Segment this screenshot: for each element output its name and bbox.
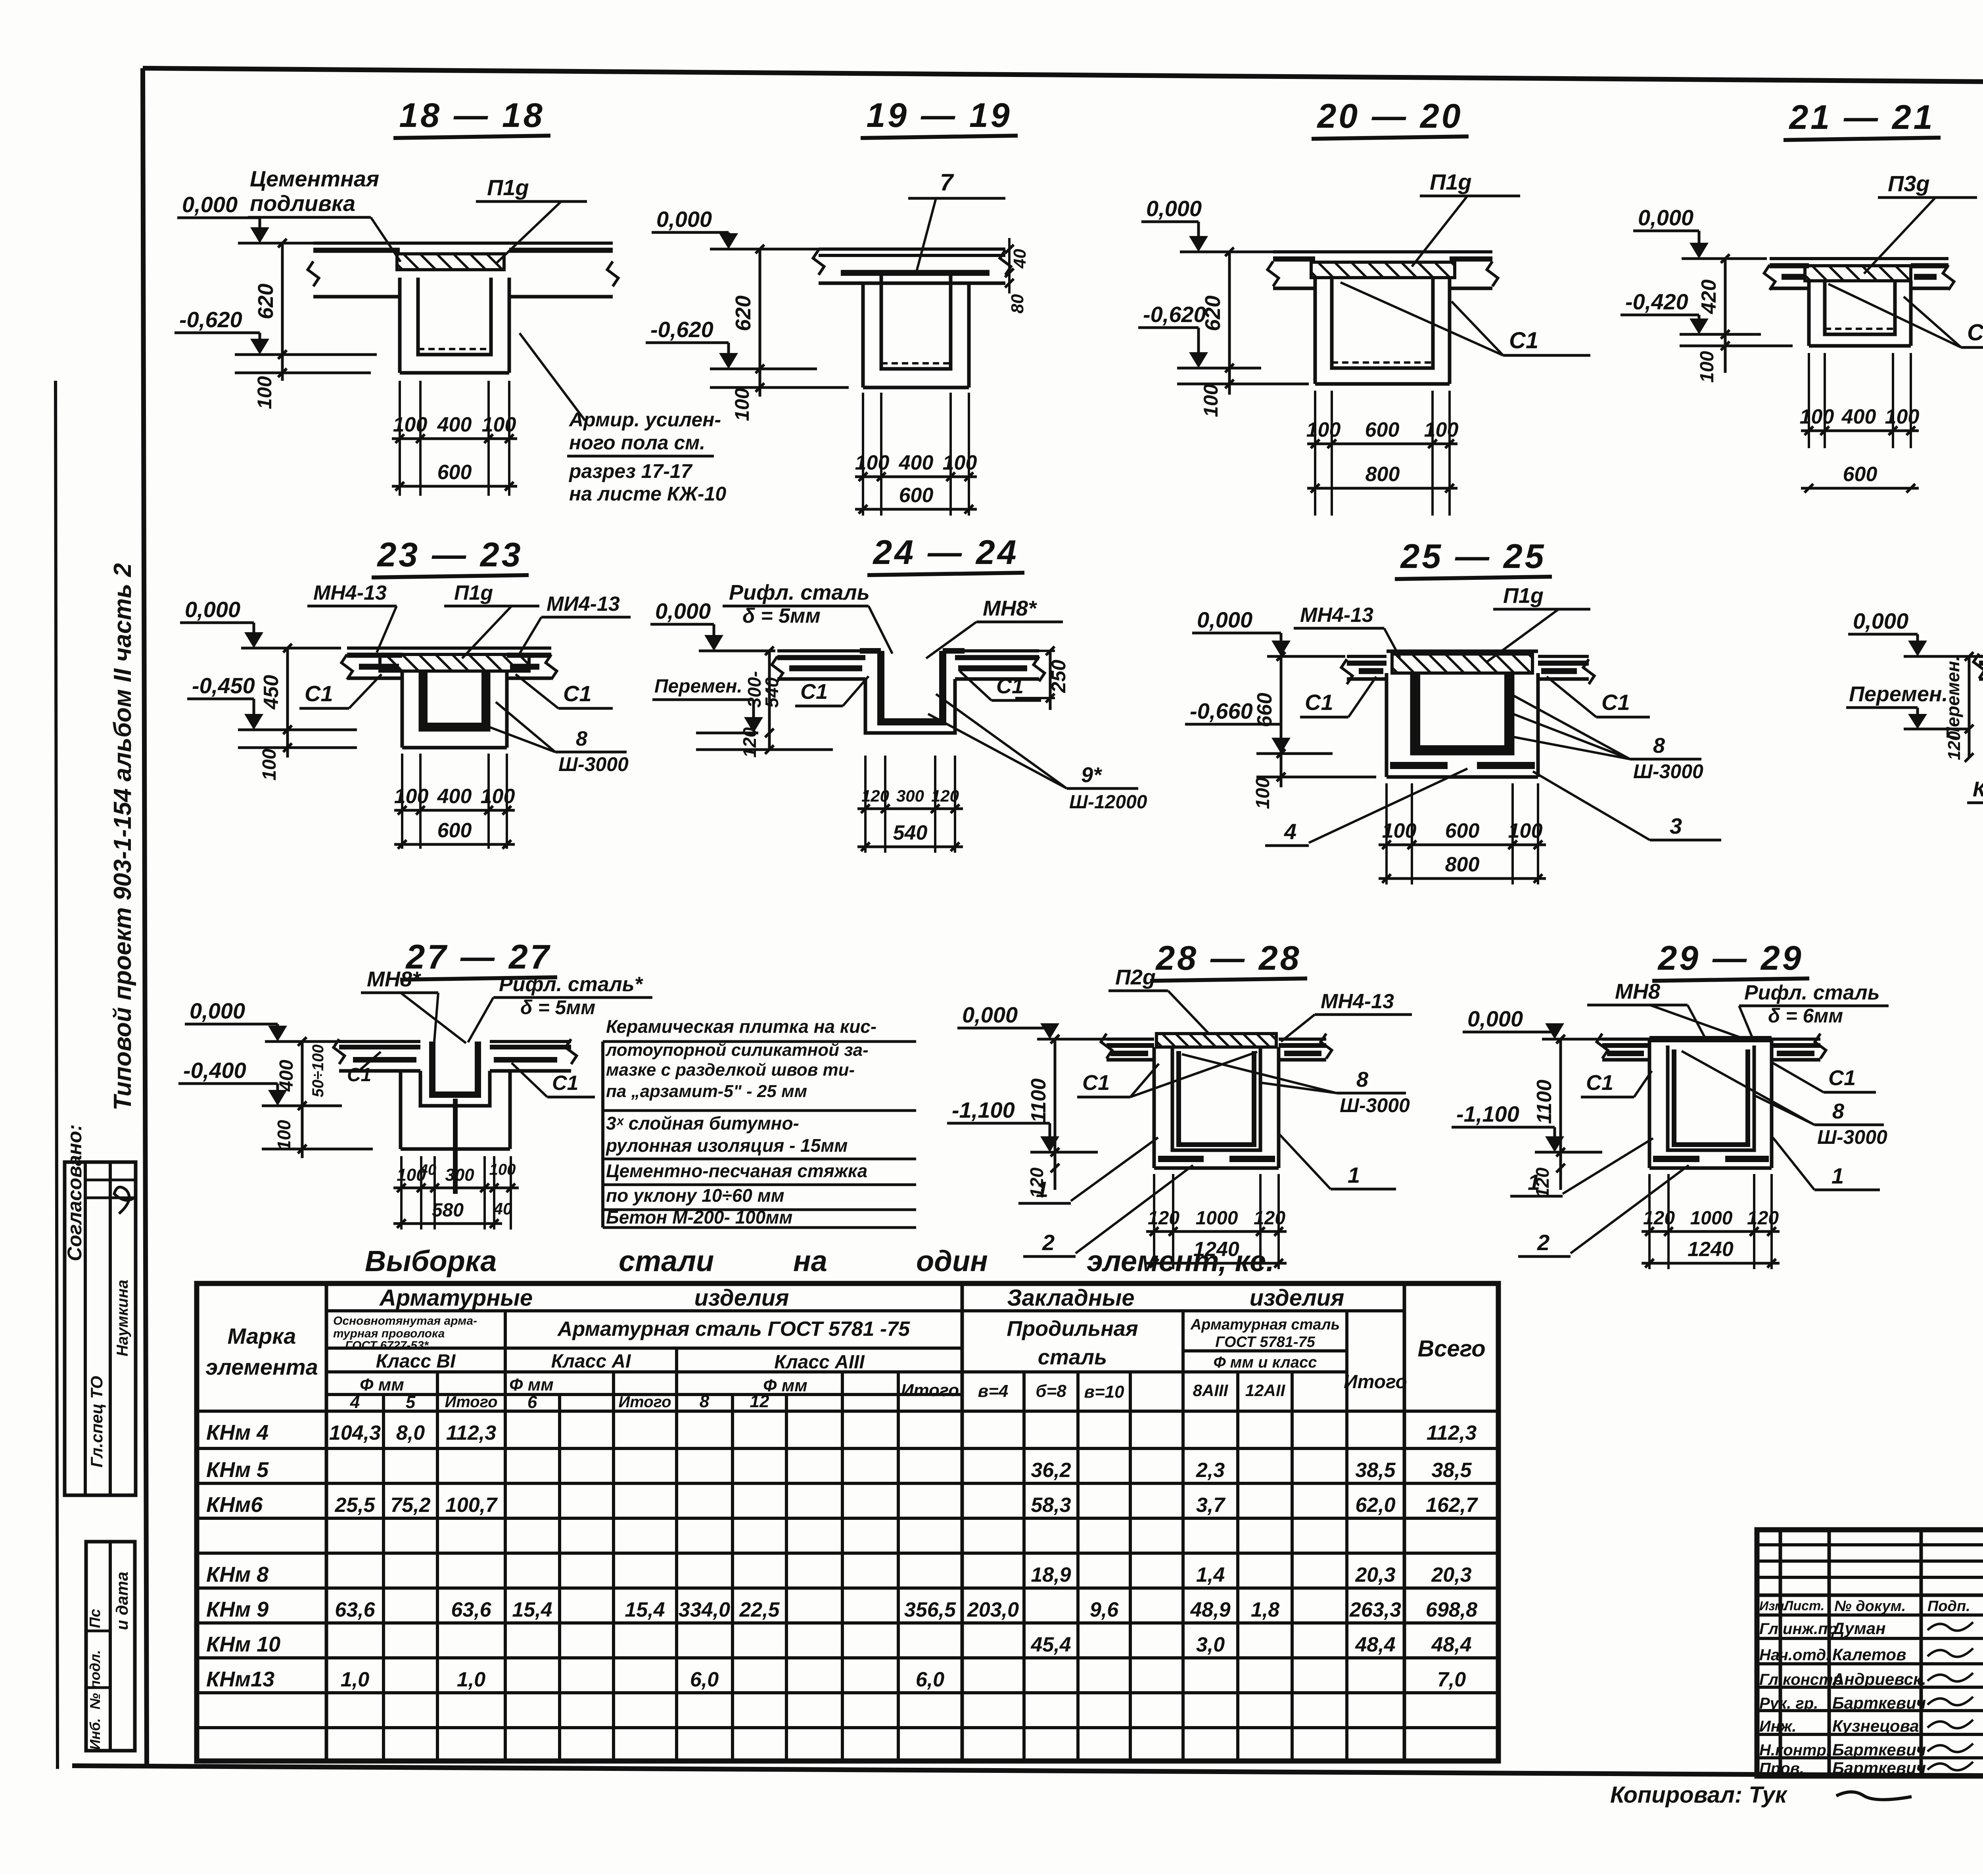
svg-text:600: 600 <box>437 819 472 842</box>
svg-text:1,8: 1,8 <box>1251 1598 1279 1621</box>
svg-text:-0,620: -0,620 <box>650 317 713 342</box>
svg-text:П1g: П1g <box>1430 169 1472 194</box>
svg-text:100: 100 <box>394 785 429 808</box>
svg-text:40: 40 <box>1010 249 1030 269</box>
svg-text:100: 100 <box>1252 777 1273 809</box>
svg-text:100: 100 <box>1800 405 1834 428</box>
svg-text:620: 620 <box>1201 295 1225 331</box>
svg-text:Ш-3000: Ш-3000 <box>1340 1094 1410 1116</box>
svg-text:8,0: 8,0 <box>396 1421 425 1444</box>
svg-text:С1: С1 <box>563 681 592 706</box>
svg-text:Рифл. сталь: Рифл. сталь <box>1744 981 1880 1004</box>
svg-text:1: 1 <box>1831 1163 1844 1188</box>
svg-text:6: 6 <box>527 1393 537 1412</box>
svg-text:Бетон М-200- 100мм: Бетон М-200- 100мм <box>606 1207 792 1228</box>
svg-text:203,0: 203,0 <box>967 1598 1019 1621</box>
svg-text:45,4: 45,4 <box>1030 1633 1071 1656</box>
svg-text:450: 450 <box>260 675 283 710</box>
svg-text:50÷100: 50÷100 <box>309 1044 327 1097</box>
svg-text:Ш-12000: Ш-12000 <box>1069 792 1147 813</box>
svg-text:-1,100: -1,100 <box>952 1097 1015 1122</box>
svg-text:С1: С1 <box>1967 320 1983 345</box>
svg-text:МН8*: МН8* <box>983 597 1038 620</box>
svg-text:18 — 18: 18 — 18 <box>399 96 545 134</box>
svg-text:420: 420 <box>1697 280 1720 315</box>
svg-text:5: 5 <box>406 1393 416 1412</box>
svg-text:Армир. усилен-: Армир. усилен- <box>568 409 721 431</box>
svg-text:1100: 1100 <box>1533 1080 1556 1124</box>
svg-text:Итого: Итого <box>618 1393 671 1411</box>
svg-text:620: 620 <box>731 295 755 331</box>
svg-text:С1: С1 <box>305 681 333 706</box>
svg-text:мазке с разделкой швов ти-: мазке с разделкой швов ти- <box>606 1060 855 1080</box>
svg-text:на: на <box>793 1245 827 1278</box>
svg-text:Арматурная сталь ГОСТ 5781: Арматурная сталь ГОСТ 5781 -75 <box>557 1318 910 1341</box>
svg-text:18,9: 18,9 <box>1031 1563 1071 1586</box>
svg-text:Рук. гр.: Рук. гр. <box>1759 1695 1818 1712</box>
svg-text:Кузнецова: Кузнецова <box>1832 1717 1919 1735</box>
svg-text:ГОСТ 6727-53*: ГОСТ 6727-53* <box>345 1339 429 1352</box>
svg-text:300: 300 <box>896 786 924 805</box>
svg-text:120: 120 <box>1747 1208 1779 1229</box>
svg-text:100: 100 <box>943 451 977 474</box>
svg-text:100,7: 100,7 <box>445 1494 498 1517</box>
svg-text:Лист.: Лист. <box>1783 1598 1824 1613</box>
svg-text:Ф мм и класс: Ф мм и класс <box>1213 1354 1317 1371</box>
svg-text:1000: 1000 <box>1690 1208 1733 1229</box>
svg-text:№ подл.: № подл. <box>87 1650 103 1709</box>
svg-text:15,4: 15,4 <box>512 1598 552 1621</box>
svg-text:0,000: 0,000 <box>656 207 712 232</box>
svg-text:600: 600 <box>899 484 934 507</box>
svg-text:120: 120 <box>861 786 889 805</box>
svg-text:48,9: 48,9 <box>1190 1598 1230 1621</box>
svg-text:48,4: 48,4 <box>1431 1633 1471 1656</box>
svg-text:Гл.констр: Гл.констр <box>1759 1671 1843 1688</box>
svg-text:540: 540 <box>893 821 928 844</box>
svg-text:Итого: Итого <box>445 1393 497 1411</box>
svg-text:-0,620: -0,620 <box>1143 302 1206 327</box>
svg-text:С1: С1 <box>1082 1071 1110 1095</box>
svg-text:3,7: 3,7 <box>1196 1494 1225 1517</box>
svg-text:334,0: 334,0 <box>679 1598 730 1621</box>
svg-text:П1g: П1g <box>454 581 493 604</box>
svg-text:Цементная: Цементная <box>250 166 379 191</box>
svg-text:-0,660: -0,660 <box>1190 698 1253 723</box>
svg-text:2,3: 2,3 <box>1196 1459 1225 1482</box>
svg-text:0,000: 0,000 <box>185 597 240 622</box>
svg-text:и дата: и дата <box>113 1572 131 1630</box>
svg-text:Класс АIII: Класс АIII <box>774 1352 865 1373</box>
svg-text:-0,420: -0,420 <box>1625 289 1688 314</box>
svg-text:600: 600 <box>1365 418 1400 441</box>
svg-text:П1g: П1g <box>487 175 529 200</box>
svg-text:КНм 4: КНм 4 <box>206 1421 268 1444</box>
svg-text:3,0: 3,0 <box>1196 1633 1225 1656</box>
svg-text:изделия: изделия <box>694 1285 789 1311</box>
svg-text:100: 100 <box>1697 351 1718 383</box>
svg-text:Инж.: Инж. <box>1759 1718 1797 1735</box>
svg-text:112,3: 112,3 <box>446 1421 496 1444</box>
svg-text:48,4: 48,4 <box>1355 1633 1395 1656</box>
svg-text:С1: С1 <box>1305 690 1333 715</box>
svg-text:600: 600 <box>1843 463 1878 486</box>
svg-text:100: 100 <box>489 1161 516 1178</box>
svg-text:6,0: 6,0 <box>690 1668 719 1691</box>
svg-text:9*: 9* <box>1081 763 1103 787</box>
svg-text:580: 580 <box>432 1200 464 1221</box>
svg-text:2: 2 <box>1537 1230 1550 1255</box>
svg-text:0,000: 0,000 <box>182 192 238 217</box>
svg-text:Перемен.: Перемен. <box>1849 682 1948 706</box>
svg-text:25 — 25: 25 — 25 <box>1400 537 1546 575</box>
svg-text:58,3: 58,3 <box>1031 1494 1071 1517</box>
svg-text:в=4: в=4 <box>978 1381 1009 1401</box>
svg-text:МН4-13: МН4-13 <box>1321 990 1394 1013</box>
svg-text:КНм 8: КНм 8 <box>1973 777 1983 801</box>
svg-text:22,5: 22,5 <box>739 1598 780 1621</box>
svg-text:С1: С1 <box>800 680 828 704</box>
svg-text:Ф мм: Ф мм <box>509 1375 554 1395</box>
svg-text:8: 8 <box>700 1392 710 1411</box>
svg-text:Керамическая плитка на кис-: Керамическая плитка на кис- <box>606 1016 876 1037</box>
svg-text:100: 100 <box>393 413 428 436</box>
svg-text:36,2: 36,2 <box>1031 1459 1071 1482</box>
svg-text:0,000: 0,000 <box>655 598 711 623</box>
svg-text:МИ4-13: МИ4-13 <box>547 593 620 616</box>
svg-text:Марка: Марка <box>228 1324 296 1348</box>
svg-text:сталь: сталь <box>1038 1345 1107 1369</box>
svg-text:600: 600 <box>1445 819 1480 842</box>
svg-text:Подп.: Подп. <box>1927 1598 1970 1615</box>
svg-text:63,6: 63,6 <box>451 1598 491 1621</box>
svg-text:стали: стали <box>619 1245 714 1278</box>
svg-text:С1: С1 <box>1586 1071 1613 1095</box>
svg-text:один: один <box>916 1245 988 1278</box>
svg-text:Н.контр.: Н.контр. <box>1759 1742 1831 1759</box>
svg-text:20,3: 20,3 <box>1355 1563 1395 1586</box>
svg-text:Ш-3000: Ш-3000 <box>558 753 629 775</box>
svg-text:8АIII: 8АIII <box>1193 1381 1229 1400</box>
svg-text:100: 100 <box>1200 384 1222 417</box>
svg-text:24 — 24: 24 — 24 <box>872 533 1018 572</box>
svg-text:С1: С1 <box>996 674 1024 698</box>
svg-text:Думан: Думан <box>1831 1619 1886 1638</box>
svg-text:1240: 1240 <box>1688 1238 1734 1261</box>
svg-text:8: 8 <box>1356 1068 1368 1091</box>
svg-text:100: 100 <box>731 388 753 421</box>
svg-text:Пс: Пс <box>87 1609 104 1628</box>
svg-text:Рифл. сталь: Рифл. сталь <box>729 581 870 604</box>
svg-text:ного пола см.: ного пола см. <box>569 432 705 454</box>
svg-text:400: 400 <box>899 451 934 474</box>
svg-text:МН4-13: МН4-13 <box>313 581 387 604</box>
svg-text:подливка: подливка <box>250 191 355 216</box>
svg-text:Продильная: Продильная <box>1007 1317 1138 1341</box>
svg-text:8: 8 <box>1832 1099 1844 1123</box>
svg-text:С1: С1 <box>1601 690 1630 715</box>
svg-text:540: 540 <box>761 677 782 708</box>
svg-text:40: 40 <box>419 1162 436 1178</box>
svg-text:12: 12 <box>750 1392 769 1411</box>
svg-text:С1: С1 <box>552 1072 578 1095</box>
svg-text:б=8: б=8 <box>1036 1381 1066 1401</box>
svg-text:КНм 8: КНм 8 <box>206 1563 268 1586</box>
svg-text:С1: С1 <box>1828 1066 1856 1090</box>
svg-text:Цементно-песчаная стяжка: Цементно-песчаная стяжка <box>606 1161 867 1181</box>
svg-text:9,6: 9,6 <box>1090 1598 1119 1621</box>
svg-text:Закладные: Закладные <box>1007 1285 1134 1311</box>
svg-text:δ = 5мм: δ = 5мм <box>520 996 595 1019</box>
svg-text:Итого: Итого <box>901 1381 959 1400</box>
svg-text:1100: 1100 <box>1027 1078 1050 1123</box>
svg-text:120: 120 <box>1254 1208 1285 1229</box>
svg-text:120: 120 <box>739 727 760 758</box>
svg-text:100: 100 <box>274 1120 294 1150</box>
svg-text:120: 120 <box>1148 1208 1179 1229</box>
svg-text:19 — 19: 19 — 19 <box>866 96 1012 134</box>
svg-text:Пров.: Пров. <box>1759 1760 1804 1777</box>
svg-text:Наумкина: Наумкина <box>114 1279 131 1356</box>
svg-text:20 — 20: 20 — 20 <box>1316 97 1463 135</box>
svg-text:0,000: 0,000 <box>1853 608 1908 633</box>
svg-text:Ф мм: Ф мм <box>360 1375 404 1395</box>
svg-text:263,3: 263,3 <box>1349 1598 1401 1621</box>
svg-text:25,5: 25,5 <box>334 1494 375 1517</box>
svg-text:Гл.спец ТО: Гл.спец ТО <box>87 1376 106 1467</box>
svg-text:КНм 5: КНм 5 <box>206 1458 269 1482</box>
svg-text:3ˣ слойная битумно-: 3ˣ слойная битумно- <box>606 1113 799 1134</box>
svg-text:112,3: 112,3 <box>1427 1421 1477 1444</box>
svg-text:100: 100 <box>1508 819 1543 842</box>
svg-text:660: 660 <box>1253 693 1276 727</box>
svg-text:Всего: Всего <box>1417 1336 1485 1362</box>
svg-text:1000: 1000 <box>1196 1208 1238 1229</box>
svg-text:Нач.отд.: Нач.отд. <box>1759 1646 1830 1664</box>
svg-text:Типовой проект 903-1-154 ал: Типовой проект 903-1-154 альбом II часть… <box>109 563 136 1111</box>
svg-text:120: 120 <box>1945 731 1964 760</box>
svg-text:КНм 10: КНм 10 <box>206 1632 280 1656</box>
svg-text:6,0: 6,0 <box>916 1668 944 1691</box>
svg-text:С1: С1 <box>347 1065 371 1086</box>
svg-text:300: 300 <box>445 1165 474 1185</box>
svg-text:δ = 5мм: δ = 5мм <box>742 604 821 627</box>
svg-text:4: 4 <box>350 1393 360 1412</box>
svg-text:4: 4 <box>1284 819 1296 844</box>
svg-text:800: 800 <box>1445 853 1480 876</box>
svg-text:0,000: 0,000 <box>1197 607 1252 632</box>
svg-text:1,0: 1,0 <box>341 1668 369 1691</box>
svg-text:62,0: 62,0 <box>1355 1494 1395 1517</box>
svg-text:100: 100 <box>1424 418 1459 441</box>
svg-text:1: 1 <box>1348 1162 1360 1187</box>
svg-text:620: 620 <box>254 284 278 319</box>
svg-text:75,2: 75,2 <box>390 1494 430 1517</box>
svg-text:-0,620: -0,620 <box>179 307 242 332</box>
svg-text:рулонная изоляция - 15мм: рулонная изоляция - 15мм <box>605 1135 848 1156</box>
svg-text:38,5: 38,5 <box>1431 1459 1472 1482</box>
svg-text:Арматурные: Арматурные <box>379 1285 533 1311</box>
svg-text:100: 100 <box>482 413 516 436</box>
svg-text:лотоупорной силикатной за-: лотоупорной силикатной за- <box>605 1040 869 1060</box>
svg-text:100: 100 <box>855 451 890 474</box>
svg-text:100: 100 <box>1885 405 1920 428</box>
svg-text:па „арзамит-5" - 25 мм: па „арзамит-5" - 25 мм <box>606 1082 807 1101</box>
svg-text:КНм13: КНм13 <box>206 1667 274 1691</box>
svg-text:Арматурная сталь: Арматурная сталь <box>1190 1316 1340 1333</box>
svg-text:ГОСТ 5781-75: ГОСТ 5781-75 <box>1215 1334 1315 1350</box>
svg-text:23 — 23: 23 — 23 <box>376 536 523 574</box>
svg-text:250: 250 <box>1047 660 1070 693</box>
svg-text:800: 800 <box>1365 463 1400 486</box>
svg-text:-1,100: -1,100 <box>1456 1101 1519 1126</box>
svg-text:3: 3 <box>1670 813 1682 838</box>
svg-text:Инб.: Инб. <box>87 1718 103 1750</box>
svg-text:21 — 21: 21 — 21 <box>1788 98 1935 136</box>
svg-text:100: 100 <box>1306 418 1341 441</box>
svg-text:элемента: элемента <box>205 1354 318 1379</box>
svg-text:Класс ВI: Класс ВI <box>376 1351 456 1372</box>
svg-text:7,0: 7,0 <box>1437 1668 1466 1691</box>
svg-text:698,8: 698,8 <box>1426 1598 1477 1621</box>
svg-text:П1g: П1g <box>1503 584 1544 608</box>
svg-text:0,000: 0,000 <box>1467 1006 1523 1031</box>
svg-text:№ докум.: № докум. <box>1834 1598 1906 1615</box>
svg-text:120: 120 <box>931 786 959 805</box>
svg-text:40: 40 <box>493 1199 512 1218</box>
svg-text:КНм6: КНм6 <box>206 1493 263 1517</box>
svg-text:1,4: 1,4 <box>1196 1563 1225 1586</box>
svg-text:МН4-13: МН4-13 <box>1300 604 1373 627</box>
svg-text:на листе КЖ-10: на листе КЖ-10 <box>569 483 726 505</box>
svg-text:20,3: 20,3 <box>1431 1563 1471 1586</box>
svg-text:29 — 29: 29 — 29 <box>1657 939 1803 977</box>
svg-text:0,000: 0,000 <box>1638 205 1693 230</box>
svg-text:600: 600 <box>437 461 472 484</box>
svg-text:в=10: в=10 <box>1084 1382 1124 1402</box>
svg-text:турная проволока: турная проволока <box>333 1327 445 1340</box>
svg-text:2: 2 <box>1042 1230 1055 1255</box>
svg-text:Итого: Итого <box>1344 1372 1407 1393</box>
svg-text:356,5: 356,5 <box>904 1598 956 1621</box>
svg-text:0,000: 0,000 <box>1146 196 1202 221</box>
svg-text:400: 400 <box>1841 405 1876 428</box>
svg-text:КНм 9: КНм 9 <box>206 1598 268 1621</box>
svg-text:элемент, ке.: элемент, ке. <box>1087 1245 1274 1278</box>
svg-text:Барткевич: Барткевич <box>1832 1694 1926 1712</box>
svg-text:28 — 28: 28 — 28 <box>1155 939 1301 977</box>
svg-text:400: 400 <box>437 413 472 436</box>
svg-text:Выборка: Выборка <box>365 1245 497 1278</box>
svg-text:δ = 6мм: δ = 6мм <box>1768 1005 1843 1027</box>
svg-text:38,5: 38,5 <box>1355 1459 1396 1482</box>
svg-text:по уклону 10÷60 мм: по уклону 10÷60 мм <box>606 1185 784 1206</box>
svg-text:Калетов: Калетов <box>1832 1645 1906 1664</box>
svg-text:162,7: 162,7 <box>1426 1494 1478 1517</box>
svg-text:120: 120 <box>1532 1167 1553 1198</box>
svg-text:Перемен.: Перемен. <box>1943 656 1963 740</box>
svg-text:400: 400 <box>276 1060 297 1092</box>
svg-text:100: 100 <box>259 749 280 781</box>
svg-text:8: 8 <box>1653 734 1665 758</box>
svg-text:П3g: П3g <box>1888 171 1930 196</box>
svg-text:8: 8 <box>576 727 587 750</box>
svg-text:Ф мм: Ф мм <box>763 1376 807 1395</box>
svg-text:1,0: 1,0 <box>457 1668 485 1691</box>
svg-text:120: 120 <box>1026 1167 1047 1198</box>
svg-text:Согласовано:: Согласовано: <box>63 1124 86 1261</box>
svg-text:Ш-3000: Ш-3000 <box>1633 760 1703 783</box>
svg-text:63,6: 63,6 <box>335 1598 375 1621</box>
svg-text:МН8*: МН8* <box>367 967 422 991</box>
svg-text:80: 80 <box>1008 294 1027 313</box>
svg-text:Рифл. сталь*: Рифл. сталь* <box>499 973 644 996</box>
svg-text:0,000: 0,000 <box>962 1002 1018 1027</box>
svg-text:Класс АI: Класс АI <box>551 1351 631 1372</box>
svg-text:Копировал: Тук: Копировал: Тук <box>1610 1782 1788 1808</box>
svg-text:Гл.инж.пр: Гл.инж.пр <box>1759 1620 1837 1638</box>
svg-text:400: 400 <box>437 785 472 808</box>
svg-text:-0,450: -0,450 <box>192 673 255 698</box>
svg-text:Основнотянутая арма-: Основнотянутая арма- <box>333 1314 477 1327</box>
svg-text:МН8: МН8 <box>1615 980 1660 1003</box>
svg-text:100: 100 <box>253 376 276 409</box>
svg-text:104,3: 104,3 <box>329 1421 381 1444</box>
svg-text:Барткевич: Барткевич <box>1832 1740 1926 1759</box>
svg-text:100: 100 <box>1382 819 1417 842</box>
svg-text:разрез 17-17: разрез 17-17 <box>568 460 693 482</box>
svg-text:Андриевск.: Андриевск. <box>1832 1670 1926 1688</box>
svg-text:120: 120 <box>1643 1208 1675 1229</box>
svg-text:изделия: изделия <box>1250 1285 1344 1311</box>
svg-text:12АII: 12АII <box>1245 1381 1286 1400</box>
svg-text:100: 100 <box>481 785 515 808</box>
svg-text:-0,400: -0,400 <box>183 1058 246 1083</box>
svg-text:П2g: П2g <box>1115 965 1156 989</box>
svg-text:Барткевич: Барткевич <box>1832 1759 1926 1777</box>
svg-text:27 — 27: 27 — 27 <box>405 938 551 976</box>
svg-text:Ш-3000: Ш-3000 <box>1817 1126 1887 1148</box>
svg-text:0,000: 0,000 <box>190 998 245 1023</box>
svg-text:7: 7 <box>940 169 954 196</box>
svg-text:Перемен.: Перемен. <box>654 676 742 697</box>
svg-text:Изм.: Изм. <box>1759 1599 1787 1613</box>
svg-text:15,4: 15,4 <box>625 1598 665 1621</box>
svg-text:С1: С1 <box>1509 328 1538 353</box>
